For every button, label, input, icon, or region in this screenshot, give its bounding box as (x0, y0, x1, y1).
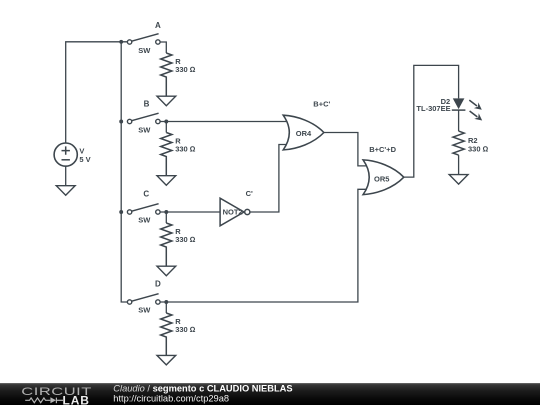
svg-text:SW: SW (138, 46, 151, 55)
svg-text:TL-307EE: TL-307EE (416, 104, 450, 113)
svg-text:SW: SW (138, 126, 151, 135)
svg-text:B+C': B+C' (313, 100, 330, 109)
svg-text:LAB: LAB (63, 393, 90, 405)
svg-text:5 V: 5 V (79, 155, 90, 164)
svg-text:V: V (79, 146, 84, 155)
svg-text:B: B (144, 99, 150, 108)
svg-text:330 Ω: 330 Ω (468, 145, 489, 154)
svg-text:330 Ω: 330 Ω (175, 325, 196, 334)
svg-text:B+C'+D: B+C'+D (369, 145, 396, 154)
svg-text:OR4: OR4 (296, 129, 312, 138)
svg-text:SW: SW (138, 305, 151, 314)
svg-text:330 Ω: 330 Ω (175, 235, 196, 244)
svg-text:330 Ω: 330 Ω (175, 65, 196, 74)
svg-text:330 Ω: 330 Ω (175, 145, 196, 154)
svg-text:D: D (155, 280, 161, 289)
svg-text:SW: SW (138, 215, 151, 224)
svg-text:NOT2: NOT2 (223, 208, 243, 217)
svg-text:OR5: OR5 (374, 175, 389, 184)
svg-text:http://circuitlab.com/ctp29a8: http://circuitlab.com/ctp29a8 (113, 394, 229, 404)
svg-text:C: C (143, 190, 149, 199)
svg-text:C': C' (246, 189, 253, 198)
svg-text:Claudio / segmento c CLAUDIO N: Claudio / segmento c CLAUDIO NIEBLAS (113, 383, 292, 393)
svg-text:A: A (155, 21, 161, 30)
